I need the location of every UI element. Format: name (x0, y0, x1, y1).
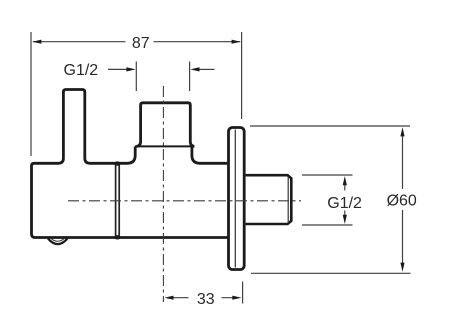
drain dome inner arc (52, 239, 64, 241)
dim G1/2 top left leader + arrow (108, 68, 127, 70)
svg-text:33: 33 (197, 291, 215, 308)
dim O60 extension top (250, 125, 410, 127)
junction dot bottom (114, 235, 120, 239)
dim 33 arrow left (164, 296, 173, 300)
dim 33 arrow right (232, 296, 241, 300)
collar right side and fillet (192, 147, 227, 164)
svg-text:G1/2: G1/2 (327, 195, 362, 212)
vertical centerline (162, 86, 164, 302)
flange outer (229, 128, 245, 270)
dim 87 extension line right (241, 32, 243, 119)
dim O60 extension bottom (251, 272, 411, 274)
dim 33 line (173, 297, 233, 299)
flange face line (234, 130, 236, 268)
svg-text:87: 87 (132, 35, 150, 52)
spout chamfer ring line (287, 176, 289, 223)
dim 87 line (33, 41, 240, 43)
dim 87 arrow right (232, 40, 241, 44)
dim 87 extension line left (30, 32, 32, 156)
junction dot top (114, 161, 120, 165)
dim 33 extension line (242, 282, 244, 304)
spout outline (246, 175, 292, 224)
joint line right (118, 165, 120, 237)
drain dome outer arc (48, 239, 67, 245)
body bottom edge (32, 234, 228, 238)
joint line left (115, 165, 117, 237)
horizontal centerline (68, 200, 301, 202)
collar top face (135, 145, 192, 147)
port left side with flare (136, 103, 194, 147)
valve body outline (left block and stem) (32, 90, 136, 235)
dim G1/2 right extension lines (302, 175, 353, 225)
dim G1/2 top extension line right (189, 62, 191, 92)
dim O60 line + arrows (402, 136, 404, 264)
dim 87 arrow left (32, 40, 41, 44)
dim G1/2 top right leader + arrow (199, 68, 215, 70)
dim G1/2 right line + arrows (344, 185, 346, 216)
dim G1/2 top extension line left (135, 62, 137, 92)
svg-text:G1/2: G1/2 (64, 62, 99, 79)
svg-text:Ø60: Ø60 (387, 193, 417, 210)
